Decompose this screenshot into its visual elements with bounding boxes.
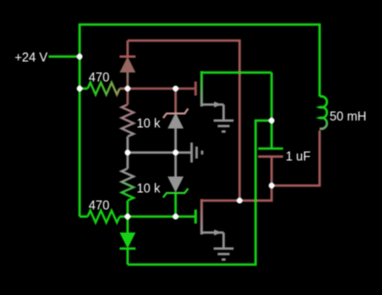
svg-text:1 uF: 1 uF — [286, 150, 311, 164]
svg-text:470: 470 — [89, 71, 110, 85]
svg-text:10 k: 10 k — [137, 117, 161, 131]
svg-text:50 mH: 50 mH — [330, 110, 367, 124]
svg-text:10 k: 10 k — [137, 182, 161, 196]
svg-text:470: 470 — [89, 199, 110, 213]
svg-text:+24 V: +24 V — [15, 51, 49, 65]
